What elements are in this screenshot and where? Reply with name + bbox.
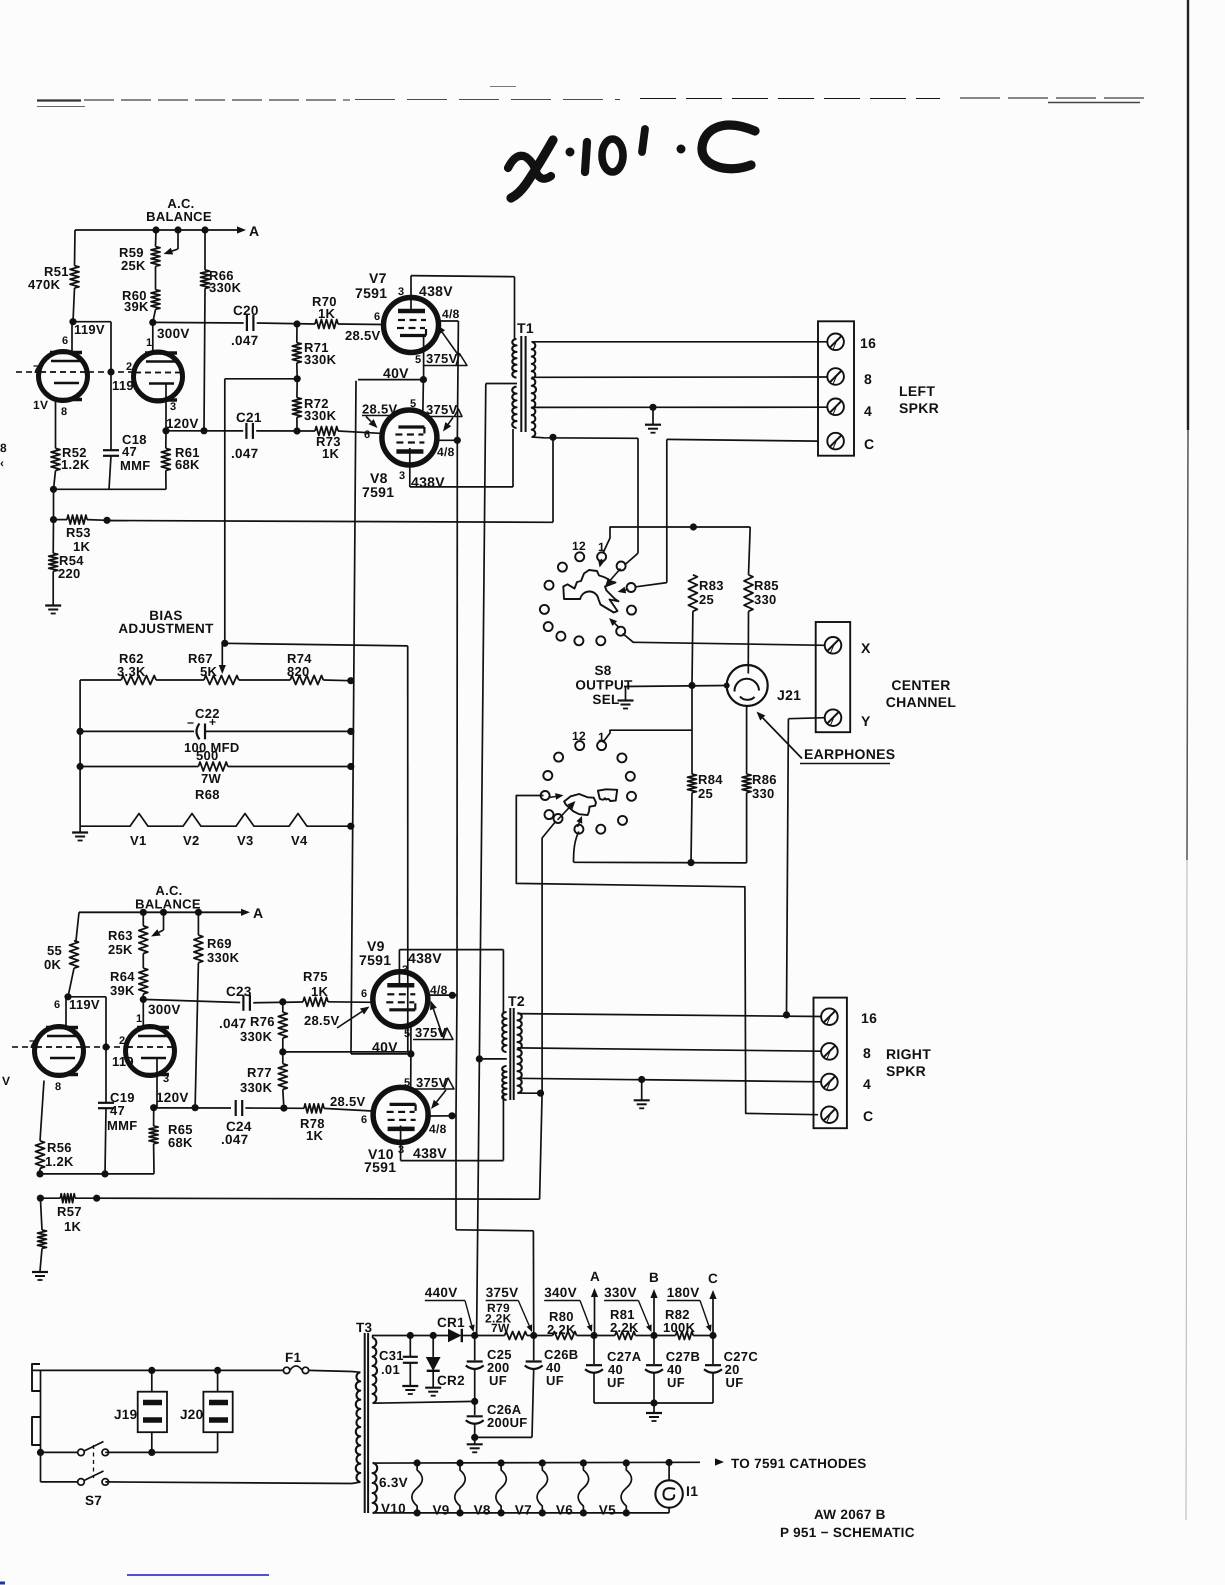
svg-text:CENTER: CENTER [891, 677, 950, 693]
node 119V (upper) [69, 318, 76, 325]
svg-text:330: 330 [754, 592, 777, 607]
svg-text:4/8: 4/8 [430, 983, 448, 997]
resistor R82 100K [654, 1335, 676, 1337]
svg-text:UF: UF [726, 1375, 744, 1390]
svg-text:25: 25 [699, 592, 714, 607]
wire Y to 16 line [788, 718, 824, 719]
capacitor C27B 40UF [653, 1336, 655, 1365]
svg-text:2.2K: 2.2K [610, 1320, 639, 1335]
resistor R78 1K [304, 1104, 324, 1113]
svg-text:V7: V7 [369, 270, 387, 286]
ground below R58 [32, 1271, 48, 1273]
svg-text:375V: 375V [426, 351, 458, 366]
wire lower feedback rail [97, 1198, 540, 1199]
scan mark blue line bottom [127, 1574, 269, 1576]
resistor R52 1.2K [55, 400, 57, 448]
wire 40V to V10 cathode [410, 1054, 412, 1088]
svg-text:C23: C23 [226, 984, 252, 999]
switch S8 upper rotor [563, 570, 618, 613]
resistor R73 1K [315, 427, 338, 436]
wire ground to J21 [624, 686, 727, 687]
svg-text:CR1: CR1 [437, 1315, 465, 1330]
svg-text:330K: 330K [209, 280, 242, 295]
svg-text:28.5V: 28.5V [345, 328, 381, 343]
resistor R72 330K [292, 398, 301, 418]
svg-text:330K: 330K [240, 1029, 273, 1044]
tube V10 7591 [373, 1087, 428, 1142]
svg-text:120V: 120V [166, 416, 199, 431]
resistor R71 330K [296, 324, 298, 343]
svg-text:B: B [649, 1270, 659, 1285]
svg-text:R63: R63 [108, 928, 133, 943]
svg-text:12: 12 [572, 729, 586, 743]
svg-text:‹: ‹ [0, 456, 4, 470]
switch S8 lower rotor [564, 794, 596, 815]
svg-text:A: A [590, 1269, 600, 1284]
capacitor C20 .047 [246, 315, 248, 331]
svg-text:C20: C20 [233, 303, 259, 318]
terminal block CENTER CHANNEL [816, 622, 851, 732]
wire cathode rail upper [54, 488, 167, 490]
resistor R59 25K (pot) [155, 230, 158, 247]
resistor R55 470K (clipped) [76, 912, 79, 940]
wire 300V coupling line [153, 321, 244, 324]
svg-text:V: V [2, 1074, 10, 1088]
resistor R64 39K [139, 968, 148, 994]
wire cathode rail lower [40, 1173, 154, 1175]
arrow to node A (upper) [237, 226, 246, 233]
svg-text:R68: R68 [195, 787, 220, 802]
svg-text:C: C [863, 1108, 873, 1124]
svg-text:330K: 330K [240, 1080, 273, 1095]
bus cathodes 40V vertical [351, 381, 356, 1054]
node dots lower balance bus [140, 909, 147, 916]
svg-text:7591: 7591 [362, 484, 394, 500]
svg-text:375V: 375V [416, 1075, 448, 1090]
wire V8 screen to bus [437, 439, 457, 441]
node R71/R72 junction + bias takeoff [294, 375, 301, 382]
svg-text:V1: V1 [130, 833, 147, 848]
wire plate lead V-left-3 [65, 997, 67, 1028]
resistor R63 25K (pot) [142, 912, 144, 926]
svg-text:R77: R77 [247, 1065, 272, 1080]
wire plate lead V-left-2 [152, 322, 154, 353]
svg-text:3.3K: 3.3K [117, 664, 146, 679]
svg-text:1V: 1V [33, 398, 48, 412]
svg-text:R83: R83 [699, 578, 724, 593]
tube V-left-1 (input triode) [39, 352, 88, 401]
svg-text:330: 330 [752, 786, 775, 801]
svg-text:47: 47 [110, 1103, 125, 1118]
svg-text:1K: 1K [311, 984, 329, 999]
wire V7 cathode to 40V node [423, 336, 425, 380]
screw terminal C (right) [821, 1106, 838, 1123]
svg-text:25: 25 [698, 786, 713, 801]
svg-text:6: 6 [374, 311, 380, 323]
svg-text:UF: UF [489, 1373, 507, 1388]
tube V7 7591 [384, 298, 439, 353]
tube V8 7591 [382, 410, 437, 465]
wire C24 to R78 [245, 1107, 304, 1109]
svg-text:SPKR: SPKR [886, 1063, 926, 1079]
wire HV secondary to rail [373, 1336, 448, 1339]
jack J19 [138, 1392, 167, 1433]
resistor R70 1K [315, 320, 338, 329]
pilot lamp I1 [666, 1459, 673, 1466]
wire T1 center tap to B+ bus [486, 383, 517, 385]
wiper arm R63 [163, 912, 165, 930]
svg-text:.01: .01 [381, 1362, 400, 1377]
svg-text:8: 8 [863, 1045, 871, 1061]
wire S8a contact1 to attenuator [603, 527, 694, 554]
wiper arrow into R67 [221, 643, 223, 665]
tube V-left-2 (input triode) [134, 352, 183, 401]
diode CR2 (zener) [430, 1332, 437, 1339]
svg-text:28.5V: 28.5V [330, 1094, 366, 1109]
jack J20 [203, 1392, 232, 1433]
wire V10 screen to bus [428, 1115, 456, 1117]
resistor R84 25 [691, 686, 693, 775]
svg-text:119: 119 [112, 378, 134, 393]
svg-text:S8: S8 [594, 663, 611, 678]
svg-text:68K: 68K [168, 1135, 193, 1150]
svg-text:7591: 7591 [364, 1159, 396, 1175]
svg-text:438V: 438V [408, 950, 442, 966]
transformer T2 core [509, 1008, 511, 1100]
node 40V lower [407, 1050, 414, 1057]
wire C21 to R73 [256, 430, 315, 432]
svg-text:7: 7 [29, 1039, 35, 1051]
svg-text:UF: UF [667, 1375, 685, 1390]
wire T2 16 tap [517, 1014, 821, 1017]
svg-text:3: 3 [163, 1073, 169, 1085]
svg-text:3: 3 [398, 286, 404, 298]
svg-text:1.2K: 1.2K [61, 457, 90, 472]
svg-text:MMF: MMF [120, 458, 151, 473]
svg-text:1K: 1K [306, 1128, 324, 1143]
tube V9 7591 [373, 972, 428, 1027]
svg-text:7W: 7W [491, 1321, 510, 1335]
svg-text:330K: 330K [304, 352, 337, 367]
svg-text:BALANCE: BALANCE [146, 209, 212, 224]
svg-text:R64: R64 [110, 969, 135, 984]
wire T2 C lead [517, 1092, 540, 1094]
resistor R61 68K [162, 427, 169, 434]
svg-text:12: 12 [572, 539, 586, 553]
scan streak top [37, 99, 81, 101]
svg-text:4/8: 4/8 [429, 1122, 447, 1136]
node 300V (lower) [140, 996, 147, 1003]
capacitor C22 100MFD [80, 730, 194, 732]
ground below C26A [474, 1437, 476, 1444]
wire heater bus bottom [373, 1512, 669, 1514]
svg-text:V5: V5 [599, 1503, 616, 1518]
node 40V upper [420, 376, 427, 383]
screw terminal 16 (right) [821, 1008, 838, 1025]
chain R62 R67 R74 top wire [80, 679, 121, 681]
transformer T2 secondary winding [518, 1013, 522, 1093]
switch S8 upper deck contacts [575, 552, 584, 561]
resistor R80 2.2K [553, 1332, 577, 1340]
wire switch to J19/J20 bottoms [105, 1451, 217, 1453]
AC plug prongs [32, 1364, 40, 1391]
wire switch bottom to T3 primary [105, 1482, 352, 1484]
resistor R85 330 [744, 575, 753, 612]
wire T1 C lead left piece [532, 437, 639, 438]
svg-text:A: A [249, 223, 259, 239]
terminal block LEFT SPKR [818, 321, 854, 455]
switch S7 [78, 1449, 85, 1456]
node 375V rail [530, 1332, 537, 1339]
screw terminal X [825, 637, 842, 654]
capacitor C27A 40UF [593, 1336, 595, 1365]
svg-text:1K: 1K [322, 446, 340, 461]
resistor R68 500 7W [80, 766, 198, 768]
capacitor C18 47MMF [110, 372, 112, 450]
svg-text:1: 1 [146, 337, 152, 349]
wire AC hot to fuse [32, 1369, 283, 1371]
svg-text:1: 1 [136, 1013, 142, 1025]
resistor R62 3.3K [121, 676, 156, 685]
wire S8b to C feed [516, 796, 818, 1115]
svg-text:SPKR: SPKR [899, 400, 939, 416]
svg-text:V9: V9 [433, 1503, 450, 1518]
wire 119V node to grid column [73, 321, 111, 323]
transformer T3 6.3V winding [373, 1463, 378, 1513]
node B 330V [650, 1332, 657, 1339]
wire upper balance bus [75, 229, 237, 231]
svg-text:P 951 − SCHEMATIC: P 951 − SCHEMATIC [780, 1525, 915, 1540]
svg-text:R56: R56 [47, 1140, 72, 1155]
bias box left column [79, 680, 81, 826]
wire C27 ground rail [594, 1402, 713, 1404]
node 440V [471, 1332, 478, 1339]
wire V7 plate lead [410, 276, 412, 311]
svg-text:2.2K: 2.2K [547, 1322, 576, 1337]
svg-text:R53: R53 [66, 525, 91, 540]
resistor R81 2.2K [594, 1335, 615, 1337]
resistor R54 220 [52, 520, 54, 554]
svg-text:V7: V7 [515, 1503, 532, 1518]
jack J21 earphone [727, 665, 768, 706]
node grid junction + dash link [107, 368, 114, 375]
resistor R66 330K [204, 230, 206, 270]
svg-text:119V: 119V [69, 997, 100, 1012]
capacitor C24 .047 [235, 1100, 237, 1116]
wire 300V lower coupling line [143, 999, 240, 1002]
svg-text:40V: 40V [383, 365, 409, 381]
wire lower balance bus [79, 911, 243, 913]
wire plate lead V-left-4 [142, 999, 144, 1027]
capacitor C23 .047 [242, 995, 244, 1011]
svg-text:2: 2 [126, 361, 132, 373]
svg-text:UF: UF [607, 1375, 625, 1390]
resistor R60 39K [151, 290, 160, 310]
svg-text:C21: C21 [236, 410, 262, 425]
svg-text:4: 4 [864, 403, 872, 419]
node bias wire junction [221, 640, 228, 647]
svg-text:T2: T2 [508, 993, 525, 1009]
svg-text:180V: 180V [667, 1285, 700, 1300]
resistor R58 220 (unlabeled) [40, 1198, 42, 1230]
wire V8 plate to T1 bottom [409, 448, 411, 487]
resistor R86 330 [746, 706, 748, 774]
ground below R54 [52, 571, 54, 605]
tube V-left-3 (input triode) [35, 1027, 84, 1076]
ground on 4 tap [649, 404, 656, 411]
svg-text:V4: V4 [291, 833, 308, 848]
heater hum bumps V1-V4 rail [80, 814, 351, 827]
capacitor C26A 200UF [474, 1401, 476, 1415]
svg-text:300V: 300V [148, 1002, 181, 1017]
transformer T1 secondary winding [532, 342, 536, 437]
svg-text:100K: 100K [663, 1320, 696, 1335]
switch S8 upper rotor arrows [600, 559, 602, 561]
wire rail drop left [53, 489, 55, 519]
svg-text:1K: 1K [73, 539, 91, 554]
wire 119V lower node to grid column [68, 996, 106, 998]
wire 40V node to V8 cathode [422, 380, 425, 411]
wire 120V coupling line [166, 430, 243, 432]
transformer T3 HV secondary [373, 1338, 377, 1403]
svg-text:39K: 39K [110, 983, 135, 998]
svg-text:5: 5 [404, 1028, 410, 1040]
node C 180V [709, 1332, 716, 1339]
ground at J21 [625, 687, 627, 701]
node R76/R77 junction lower bias [279, 1048, 286, 1055]
screw terminal 8 (right) [821, 1043, 838, 1060]
wire V7 plate to T1 top [411, 276, 515, 277]
svg-text:25K: 25K [121, 258, 146, 273]
wire T2 center tap [479, 1058, 506, 1060]
svg-text:V2: V2 [183, 833, 200, 848]
svg-text:47: 47 [122, 444, 137, 459]
svg-text:4/8: 4/8 [437, 445, 455, 459]
svg-text:39K: 39K [124, 299, 149, 314]
svg-text:330V: 330V [604, 1285, 637, 1300]
screw terminal 16 (left) [827, 334, 844, 351]
wire T2 8 tap [517, 1048, 821, 1051]
svg-text:8: 8 [55, 1081, 61, 1093]
screw terminal 4 (left) [827, 399, 844, 416]
svg-text:7591: 7591 [355, 285, 387, 301]
transformer T3 primary winding [356, 1372, 360, 1482]
wire S8b contact1 jog [603, 730, 692, 742]
resistor R65 68K [150, 1104, 157, 1111]
wire bias to lower channel [225, 643, 408, 646]
svg-text:28.5V: 28.5V [304, 1013, 340, 1028]
wire fuse to T3 [309, 1370, 352, 1371]
svg-text:340V: 340V [544, 1285, 577, 1300]
resistor R51 470K [74, 230, 77, 266]
screw terminal 4 (right) [821, 1074, 838, 1091]
wire V7 screen to bus [439, 320, 459, 322]
svg-text:5: 5 [415, 354, 421, 366]
svg-text:V8: V8 [474, 1503, 491, 1518]
svg-text:SEL: SEL [592, 692, 619, 707]
svg-text:6.3V: 6.3V [379, 1475, 408, 1490]
svg-text:330K: 330K [304, 408, 337, 423]
svg-text:R69: R69 [207, 936, 232, 951]
resistor R76 330K [282, 1002, 284, 1012]
svg-text:8: 8 [864, 371, 872, 387]
svg-text:438V: 438V [419, 283, 453, 299]
svg-text:1K: 1K [64, 1219, 82, 1234]
wire tube4 cathode to 120V node [156, 1058, 158, 1108]
terminal block RIGHT SPKR [814, 998, 847, 1129]
svg-text:RIGHT: RIGHT [886, 1046, 931, 1062]
resistor R57 1K [40, 1197, 60, 1199]
svg-text:X: X [861, 640, 871, 656]
transformer T3 core [364, 1333, 366, 1513]
svg-text:R84: R84 [698, 772, 723, 787]
node 119V (lower) [64, 993, 71, 1000]
svg-text:J20: J20 [180, 1407, 203, 1422]
svg-text:R57: R57 [57, 1204, 82, 1219]
svg-text:T1: T1 [517, 320, 534, 336]
svg-text:16: 16 [860, 335, 876, 351]
wire T2 4 tap [517, 1078, 821, 1082]
svg-text:470K: 470K [28, 277, 61, 292]
hum-balance squiggles V10..V5 [414, 1459, 421, 1466]
wire tube2 cathode to 120V node [165, 384, 167, 431]
svg-text:7: 7 [33, 364, 39, 376]
svg-text:R75: R75 [303, 969, 328, 984]
svg-text:220: 220 [58, 566, 81, 581]
svg-text:C: C [864, 436, 874, 452]
svg-text:C31: C31 [379, 1348, 404, 1363]
wire S8a to X terminal [623, 634, 825, 646]
capacitor C26B 40UF [533, 1336, 535, 1361]
wire heater bus top [373, 1461, 700, 1464]
wire 120V lower coupling line [157, 1107, 231, 1109]
svg-text:CR2: CR2 [437, 1373, 465, 1388]
capacitor C27C 20UF [712, 1336, 714, 1365]
grid stub left of tube (lower) [12, 1046, 18, 1048]
svg-text:.047: .047 [231, 446, 258, 461]
svg-text:5K: 5K [200, 664, 218, 679]
svg-text:V6: V6 [556, 1503, 573, 1518]
svg-text:C: C [708, 1271, 718, 1286]
capacitor C19 47MMF [105, 1047, 107, 1103]
svg-text:F1: F1 [285, 1350, 302, 1365]
svg-text:V3: V3 [237, 833, 254, 848]
svg-text:R76: R76 [250, 1014, 275, 1029]
svg-text:8: 8 [0, 441, 7, 455]
capacitor C31 .01 [407, 1332, 414, 1339]
grid stub left of tube [16, 371, 22, 373]
svg-text:1K: 1K [318, 306, 336, 321]
resistor R69 330K [197, 912, 199, 935]
wire V9 cathode to 40V lower node [410, 1027, 412, 1054]
resistor R56 1.2K [40, 1081, 44, 1141]
screw terminal 8 (left) [827, 368, 844, 385]
svg-text:C22: C22 [195, 706, 220, 721]
wire AC neutral to switch [40, 1370, 42, 1482]
resistor R53 1K [54, 519, 68, 521]
svg-text:CHANNEL: CHANNEL [886, 694, 957, 710]
svg-text:6: 6 [54, 999, 60, 1011]
svg-text:.047: .047 [231, 333, 258, 348]
svg-text:55: 55 [47, 943, 62, 958]
wire T1 16 tap [532, 341, 828, 343]
bus B+ 440V vertical [479, 384, 485, 1059]
node grid junction lower [102, 1043, 109, 1050]
svg-text:28.5V: 28.5V [362, 402, 398, 417]
resistor R74 820 [290, 676, 323, 685]
node A 340V [590, 1332, 597, 1339]
svg-text:300V: 300V [157, 326, 190, 341]
